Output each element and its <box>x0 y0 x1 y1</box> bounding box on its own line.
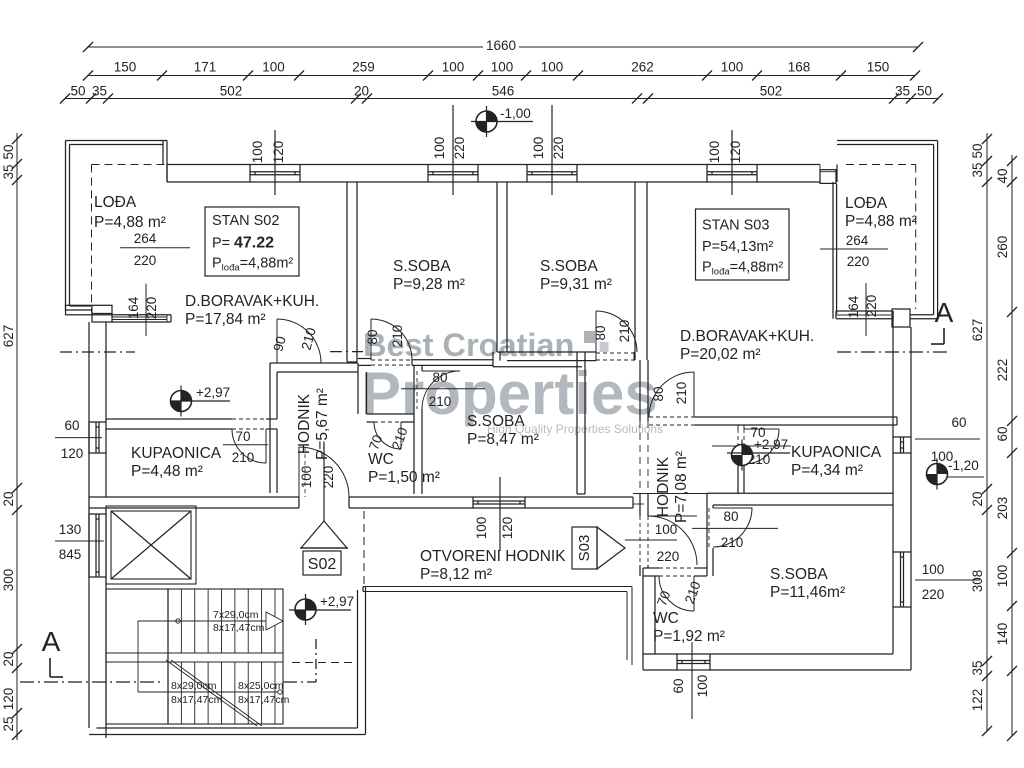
svg-text:845: 845 <box>59 547 82 562</box>
svg-text:KUPAONICA: KUPAONICA <box>791 444 882 461</box>
svg-text:222: 222 <box>995 359 1010 382</box>
svg-text:P=20,02 m²: P=20,02 m² <box>680 346 761 363</box>
svg-text:P=8,12 m²: P=8,12 m² <box>420 566 492 583</box>
svg-text:220: 220 <box>864 295 879 318</box>
WC S02 walls <box>367 414 415 422</box>
svg-text:47.22: 47.22 <box>234 235 274 252</box>
svg-text:100: 100 <box>707 141 722 164</box>
svg-text:LOĐA: LOĐA <box>94 194 137 211</box>
svg-text:300: 300 <box>1 569 16 592</box>
room label S.SOBA <box>467 413 525 430</box>
left dimension line <box>1 133 22 740</box>
svg-text:100: 100 <box>432 137 447 160</box>
svg-text:D.BORAVAK+KUH.: D.BORAVAK+KUH. <box>680 328 814 345</box>
svg-text:P=4,88 m²: P=4,88 m² <box>845 213 917 230</box>
svg-text:35: 35 <box>895 84 910 99</box>
window W1 centerline and 100/120 labels <box>250 130 286 195</box>
window W4 centerline and 100/120 labels <box>707 130 743 195</box>
level mark -1,20 <box>927 458 985 490</box>
level mark +2,97 living S02 <box>170 385 230 417</box>
svg-text:164: 164 <box>846 295 861 318</box>
svg-text:210: 210 <box>232 450 255 465</box>
wall hall S03 / bedroom 11.46 <box>707 493 713 576</box>
window in left wall 130 <box>89 514 106 577</box>
window right wall 100 <box>893 552 911 607</box>
svg-text:35: 35 <box>92 84 107 99</box>
wall hall S03 / bathroom S03 <box>738 425 744 493</box>
svg-text:A: A <box>935 297 954 328</box>
svg-text:P=8,47 m²: P=8,47 m² <box>467 431 539 448</box>
top exterior wall <box>167 165 837 184</box>
svg-text:20: 20 <box>354 84 369 99</box>
wall between living room S02 and bedroom 9.28 <box>347 182 357 362</box>
svg-text:P=9,28 m²: P=9,28 m² <box>393 276 465 293</box>
svg-text:P=4,48 m²: P=4,48 m² <box>131 463 203 480</box>
svg-text:80: 80 <box>723 509 738 524</box>
WC S03 walls <box>643 568 707 654</box>
room label OTVORENI HODNIK <box>420 548 566 565</box>
svg-text:50: 50 <box>70 84 85 99</box>
svg-text:120: 120 <box>61 446 84 461</box>
svg-text:STAN S03: STAN S03 <box>702 218 769 234</box>
svg-text:264: 264 <box>134 231 157 246</box>
svg-text:OTVORENI HODNIK: OTVORENI HODNIK <box>420 548 566 565</box>
left window dim 60/120 <box>55 418 102 461</box>
room label S.SOBA <box>540 258 598 275</box>
room label P=8,12 m² <box>420 566 492 583</box>
svg-text:80: 80 <box>365 329 380 344</box>
svg-text:1660: 1660 <box>486 38 516 53</box>
svg-text:150: 150 <box>867 60 890 75</box>
loggia S02 dim 164/220 <box>126 284 159 336</box>
svg-text:100: 100 <box>922 562 945 577</box>
svg-text:100: 100 <box>721 60 744 75</box>
svg-text:P=17,84 m²: P=17,84 m² <box>185 311 266 328</box>
svg-text:220: 220 <box>551 137 566 160</box>
svg-text:210: 210 <box>617 320 632 343</box>
room label P=17,84 m² <box>185 311 266 328</box>
svg-text:220: 220 <box>144 297 159 320</box>
svg-text:502: 502 <box>220 84 243 99</box>
room label D.BORAVAK+KUH. <box>185 293 319 310</box>
svg-text:260: 260 <box>995 236 1010 259</box>
wall between WC S02 area and bedroom 8.47 <box>414 366 422 494</box>
svg-text:120: 120 <box>271 141 286 164</box>
svg-text:70: 70 <box>235 429 250 444</box>
svg-text:A: A <box>42 626 61 657</box>
door to bedroom 9.28 <box>365 319 412 360</box>
svg-text:60: 60 <box>64 418 79 433</box>
svg-text:35: 35 <box>1 164 16 179</box>
right inner dimension line <box>970 133 992 736</box>
door to bedroom 8.47 <box>401 370 485 409</box>
svg-text:LOĐA: LOĐA <box>845 195 888 212</box>
svg-text:20: 20 <box>970 491 985 506</box>
wall south of bedroom 9.28 with door opening <box>358 359 493 366</box>
svg-text:100: 100 <box>474 517 489 540</box>
svg-text:80: 80 <box>651 386 666 401</box>
svg-text:264: 264 <box>846 233 869 248</box>
window dim 100/120 otvoreni hodnik <box>474 477 515 551</box>
room label P=1,50 m² <box>368 469 440 486</box>
svg-text:120: 120 <box>1 688 16 711</box>
loggia S02 parapet walls <box>66 141 168 314</box>
svg-text:80: 80 <box>432 370 447 385</box>
door to bathroom S03 <box>712 425 791 467</box>
svg-text:50: 50 <box>970 143 985 158</box>
svg-text:P=5,67 m²: P=5,67 m² <box>314 388 331 460</box>
room label P=20,02 m² <box>680 346 761 363</box>
room label HODNIK S02 <box>296 388 331 460</box>
window OTVORENI HODNIK 100/120 <box>473 497 525 508</box>
apartment S02 entrance door <box>299 444 349 521</box>
svg-text:35: 35 <box>970 162 985 177</box>
window WC S03 <box>677 654 710 670</box>
svg-text:120: 120 <box>728 141 743 164</box>
window W3 in top wall <box>527 165 577 183</box>
svg-text:P=4,88 m²: P=4,88 m² <box>94 214 166 231</box>
svg-text:KUPAONICA: KUPAONICA <box>131 445 222 462</box>
svg-text:210: 210 <box>429 394 452 409</box>
svg-text:100: 100 <box>262 60 285 75</box>
window right wall 60 <box>893 437 911 453</box>
svg-text:20: 20 <box>1 651 16 666</box>
wall between living S03 and bath/hall <box>649 417 897 425</box>
room label P=4,34 m² <box>791 462 863 479</box>
section line left with A <box>20 626 356 682</box>
top dimension lines <box>60 38 943 104</box>
stair text lower flight right <box>238 680 290 706</box>
S03 hall west wall <box>640 360 648 576</box>
svg-text:308: 308 <box>970 570 985 593</box>
svg-text:50: 50 <box>1 144 16 159</box>
room label S.SOBA <box>393 258 451 275</box>
section line right with A <box>60 297 954 352</box>
svg-text:60: 60 <box>995 426 1010 441</box>
door to WC S02 <box>366 422 411 452</box>
svg-text:220: 220 <box>134 253 157 268</box>
svg-text:7x29,0cm: 7x29,0cm <box>213 609 259 621</box>
svg-text:35: 35 <box>970 660 985 675</box>
svg-text:P=: P= <box>212 236 230 252</box>
svg-text:210: 210 <box>390 325 405 348</box>
right exterior wall <box>893 311 911 670</box>
wall between bedroom 8.47 and S03 living <box>577 352 585 494</box>
svg-text:8x25,0cm: 8x25,0cm <box>238 680 284 692</box>
svg-text:25: 25 <box>1 716 16 731</box>
svg-text:P=11,46m²: P=11,46m² <box>770 584 845 601</box>
room label LODJA S03 <box>845 195 917 230</box>
svg-text:100: 100 <box>695 675 710 698</box>
svg-text:50: 50 <box>917 84 932 99</box>
svg-text:40: 40 <box>995 168 1010 183</box>
bathroom S02 walls <box>106 419 277 429</box>
svg-text:WC: WC <box>368 451 394 468</box>
svg-text:100: 100 <box>250 141 265 164</box>
svg-text:S.SOBA: S.SOBA <box>393 258 451 275</box>
room label KUPAONICA <box>131 445 222 462</box>
svg-text:150: 150 <box>114 60 137 75</box>
svg-text:S02: S02 <box>308 556 337 573</box>
svg-text:210: 210 <box>674 382 689 405</box>
right dim 60/100 with level <box>915 415 980 464</box>
loggia S02 dim 264/220 <box>120 231 190 268</box>
level mark -1,00 <box>471 106 533 137</box>
svg-text:100: 100 <box>491 60 514 75</box>
svg-text:D.BORAVAK+KUH.: D.BORAVAK+KUH. <box>185 293 319 310</box>
level mark +2,97 stairs <box>289 594 354 625</box>
entrance marker S03 <box>572 527 625 569</box>
loggia S03 dim 264/220 <box>820 233 888 269</box>
wall between bedrooms 9.28 and 9.31 <box>497 182 507 352</box>
svg-text:220: 220 <box>847 254 870 269</box>
wall south of bedroom 9.31 <box>493 352 596 367</box>
window W2 in top wall <box>428 165 478 183</box>
svg-text:+2,97: +2,97 <box>754 437 788 452</box>
svg-text:P=4,34 m²: P=4,34 m² <box>791 462 863 479</box>
info box STAN S02 <box>205 207 299 276</box>
svg-text:100: 100 <box>655 522 678 537</box>
bottom exterior wall S03 <box>643 654 911 670</box>
svg-text:120: 120 <box>500 517 515 540</box>
svg-text:80: 80 <box>593 325 608 340</box>
svg-text:8x17,47cm: 8x17,47cm <box>238 694 290 706</box>
bottom exterior wall and stair hall right wall <box>89 587 366 735</box>
svg-text:168: 168 <box>788 60 811 75</box>
loggia S02 lower wall <box>66 305 172 322</box>
watermark Best Croatian Properties <box>361 327 663 436</box>
svg-text:P=9,31 m²: P=9,31 m² <box>540 276 612 293</box>
door to bedroom 11.46 <box>692 508 778 550</box>
room label WC <box>368 451 394 468</box>
svg-text:100: 100 <box>995 565 1010 588</box>
room label P=1,92 m² <box>653 628 725 645</box>
svg-text:164: 164 <box>126 296 141 319</box>
svg-text:130: 130 <box>59 522 82 537</box>
svg-text:60: 60 <box>951 415 966 430</box>
svg-text:8x29,0cm: 8x29,0cm <box>171 680 217 692</box>
entrance marker S02 <box>300 521 348 575</box>
svg-text:S03: S03 <box>576 535 593 562</box>
svg-text:203: 203 <box>995 497 1010 520</box>
svg-text:262: 262 <box>631 60 654 75</box>
info box STAN S03 <box>696 209 790 280</box>
door to living S03 <box>649 372 694 417</box>
level mark +2,97 bath S03 <box>727 437 790 471</box>
right outer dimension line <box>995 155 1017 741</box>
window W4 in top wall <box>707 165 757 183</box>
svg-text:WC: WC <box>653 610 679 627</box>
left window dim 130/845 <box>55 522 104 562</box>
svg-text:STAN S02: STAN S02 <box>212 213 279 229</box>
svg-text:8x17,47cm: 8x17,47cm <box>171 694 223 706</box>
wall bath S03 / bedroom 11.46 <box>633 493 893 505</box>
elevator shaft <box>106 506 196 584</box>
svg-text:P=7,08 m²: P=7,08 m² <box>673 451 690 523</box>
room label KUPAONICA <box>791 444 882 461</box>
svg-text:627: 627 <box>970 319 985 342</box>
room label LODJA S02 <box>94 194 166 231</box>
svg-text:220: 220 <box>657 549 680 564</box>
right window dim 100/220 <box>915 562 980 602</box>
left exterior wall <box>89 322 106 738</box>
svg-text:210: 210 <box>721 535 744 550</box>
room label S.SOBA <box>770 566 828 583</box>
apartment bottom wall <box>89 497 633 508</box>
wall between bedroom 9.31 and S03 living <box>635 182 647 360</box>
loggia S03 parapet walls <box>833 141 938 319</box>
room label HODNIK S03 <box>655 451 690 523</box>
room label P=8,47 m² <box>467 431 539 448</box>
room label P=9,31 m² <box>540 276 612 293</box>
loggia S03 dim 164/220 <box>846 283 879 336</box>
svg-text:+2,97: +2,97 <box>320 594 354 609</box>
svg-text:+2,97: +2,97 <box>196 385 230 400</box>
svg-text:259: 259 <box>352 60 375 75</box>
window W1 in top wall <box>250 165 300 183</box>
window W2 centerline and 100/220 labels <box>432 105 467 195</box>
svg-text:HODNIK: HODNIK <box>655 456 672 517</box>
door to living room S02 <box>270 319 321 372</box>
svg-text:171: 171 <box>194 60 217 75</box>
svg-text:P=1,92 m²: P=1,92 m² <box>653 628 725 645</box>
svg-text:140: 140 <box>995 623 1010 646</box>
dashed corridor boundary <box>363 511 365 587</box>
svg-text:S.SOBA: S.SOBA <box>467 413 525 430</box>
room label P=4,48 m² <box>131 463 203 480</box>
room label D.BORAVAK+KUH. <box>680 328 814 345</box>
svg-text:220: 220 <box>922 587 945 602</box>
svg-text:100: 100 <box>541 60 564 75</box>
window in left wall 60 <box>89 422 106 453</box>
svg-text:S.SOBA: S.SOBA <box>770 566 828 583</box>
door to WC S03 <box>654 576 704 611</box>
svg-text:122: 122 <box>970 689 985 712</box>
room label P=9,28 m² <box>393 276 465 293</box>
stair text lower flight left <box>171 680 223 706</box>
corridor S02 walls <box>270 363 367 493</box>
staircase <box>106 589 283 726</box>
door to bathroom S02 <box>223 429 268 465</box>
door to bedroom 9.31 <box>593 311 637 361</box>
svg-text:220: 220 <box>321 466 336 489</box>
window W3 centerline and 100/220 labels <box>531 105 566 195</box>
svg-text:P=1,50 m²: P=1,50 m² <box>368 469 440 486</box>
svg-text:20: 20 <box>1 491 16 506</box>
svg-text:100: 100 <box>442 60 465 75</box>
loggia S03 lower wall <box>836 309 910 327</box>
svg-text:100: 100 <box>531 137 546 160</box>
svg-text:-1,00: -1,00 <box>500 106 531 121</box>
svg-text:627: 627 <box>1 325 16 348</box>
room label WC <box>653 610 679 627</box>
svg-text:HODNIK: HODNIK <box>296 393 313 454</box>
svg-text:60: 60 <box>671 678 686 693</box>
svg-text:P=54,13m²: P=54,13m² <box>702 239 774 255</box>
terrace edge below open corridor <box>363 587 632 666</box>
stair text upper flight <box>213 609 265 634</box>
svg-text:8x17,47cm: 8x17,47cm <box>213 622 265 634</box>
bottom window dim 60/100 <box>671 642 710 719</box>
apartment S03 entrance door <box>625 516 697 565</box>
svg-text:-1,20: -1,20 <box>948 458 979 473</box>
svg-text:546: 546 <box>492 84 515 99</box>
svg-text:220: 220 <box>452 137 467 160</box>
room label P=11,46m² <box>770 584 845 601</box>
svg-text:100: 100 <box>299 466 314 489</box>
svg-text:S.SOBA: S.SOBA <box>540 258 598 275</box>
svg-text:502: 502 <box>760 84 783 99</box>
